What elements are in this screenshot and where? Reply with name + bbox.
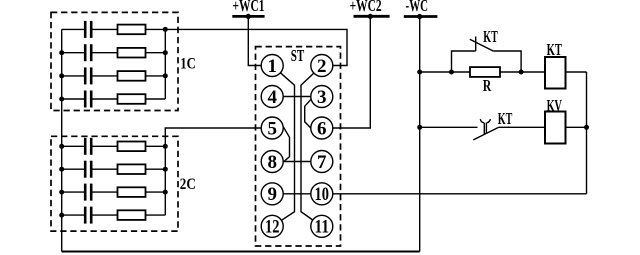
resistor 2C row4 [93,210,166,220]
resistor 1C row2 [93,48,166,58]
terminal pin 3 [311,86,333,108]
wire ST internal 9 to 10 [283,193,311,195]
label KT (NC contact) [483,27,498,46]
terminal pin 12 [261,215,283,237]
node +WC2 terminal bar [354,15,390,18]
wire +WC2 drop to pin 6 [333,16,371,128]
wire KT coil to rail [566,71,587,73]
contact KT (NC bypass) wiring [452,51,476,72]
label R [483,76,492,95]
capacitor 2C row4 [62,207,91,224]
wire +WC1 drop to pin 1 [248,16,261,65]
svg-text:-WC: -WC [406,0,429,15]
junction dots 2C left bus [59,144,64,218]
wire 1C left bus down to bottom rail [61,29,63,251]
svg-text:7: 7 [317,152,327,173]
node +WC1 label [233,0,265,15]
capacitor 2C row3 [62,184,91,201]
wire -WC vertical rail [419,17,421,252]
svg-text:KT: KT [547,40,563,59]
wire 1C row1 to pin 2 [165,29,347,65]
terminal pin 8 [261,151,283,173]
wire NO contact to KV coil [499,126,545,128]
terminal pin 7 [311,151,333,173]
resistor 2C row2 [93,164,166,174]
resistor R [470,67,500,77]
label ST [291,46,305,65]
wire ST internal 8 to 7 [283,161,311,163]
wire ST internal 2 to 11 [301,73,314,220]
svg-text:ST: ST [291,46,305,65]
node +WC1 junction dot [246,14,251,19]
svg-text:2C: 2C [180,176,196,193]
resistor 1C row1 [93,25,166,35]
capacitor bank 2C dashed box [51,136,178,231]
capacitor 1C row1 [62,21,91,38]
terminal pin 10 [311,183,333,205]
terminal pin 11 [311,215,333,237]
svg-text:R: R [483,76,492,95]
svg-text:10: 10 [315,184,330,205]
node +WC1 terminal bar [232,15,264,18]
test block ST dashed box [256,47,341,246]
label 2C [180,176,196,193]
wire ST internal 1 to 12 [280,73,294,221]
junction dots 2C right bus [163,144,168,195]
capacitor bank 1C dashed box [51,12,178,110]
node +WC2 junction dot [368,14,373,19]
terminal pin 2 [311,55,333,77]
svg-text:9: 9 [267,184,277,205]
capacitor 1C row2 [62,44,91,61]
svg-text:KV: KV [547,96,563,115]
label KV (coil) [547,96,563,115]
relay coil KT [545,57,566,89]
svg-text:5: 5 [267,118,277,139]
resistor 1C row3 [93,71,166,81]
wire right vertical rail [586,72,588,194]
svg-text:8: 8 [267,152,277,173]
node -WC terminal bar [404,15,438,18]
resistor 1C row4 [93,94,166,104]
junction dots 1C left bus [59,50,64,101]
resistor 2C row3 [93,187,166,197]
svg-text:1C: 1C [180,56,196,73]
junction dots R branch [417,70,523,75]
wire KV coil to rail [566,126,587,128]
wire ST internal 4 to 3 [283,96,311,98]
capacitor 1C row4 [62,91,91,108]
capacitor 2C row1 [62,138,91,155]
wire 2C right bus riser to pin 5 [165,128,261,215]
capacitor 1C row3 [62,67,91,84]
svg-text:12: 12 [265,217,280,238]
relay coil KV [545,112,566,144]
node +WC2 label [350,0,382,15]
svg-text:KT: KT [498,109,513,128]
terminal pin 4 [261,86,283,108]
wire ST internal 5 to 8 [283,127,289,162]
label 1C [180,56,196,73]
svg-text:2: 2 [317,56,327,77]
wire R to KT coil [500,71,545,73]
wire 1C right bus [164,29,166,99]
wire -WC to R branch [420,71,470,73]
label KT (coil) [547,40,563,59]
node -WC label [406,0,429,15]
contact KT time-delay symbol [480,119,490,134]
wire ST internal 3 to 6 [305,99,311,128]
terminal pin 5 [261,117,283,139]
label KT (NO contact) [498,109,513,128]
svg-text:6: 6 [317,118,327,139]
svg-text:+WC1: +WC1 [233,0,265,15]
svg-text:11: 11 [315,217,330,238]
capacitor 2C row2 [62,161,91,178]
wire pin 10 to relay rail [333,193,587,195]
terminal pin 6 [311,117,333,139]
contact KT blade and bar [470,37,494,52]
wire NC contact to right junction [493,51,521,72]
contact KT (NO, time delay) blade [473,127,498,140]
junction dots 1C right bus [163,27,168,79]
svg-text:3: 3 [317,87,327,108]
terminal pin 1 [261,55,283,77]
svg-text:4: 4 [267,87,277,108]
svg-text:1: 1 [267,56,277,77]
wire bottom rail [62,251,420,253]
resistor 2C row1 [93,142,166,152]
terminal pin 9 [261,183,283,205]
svg-text:KT: KT [483,27,498,46]
junction dot -WC KV branch [417,125,422,130]
svg-text:+WC2: +WC2 [350,0,382,15]
wire -WC to KT NO contact [420,126,478,128]
junction dot KV rail [584,125,589,130]
node -WC junction dot [417,14,422,19]
